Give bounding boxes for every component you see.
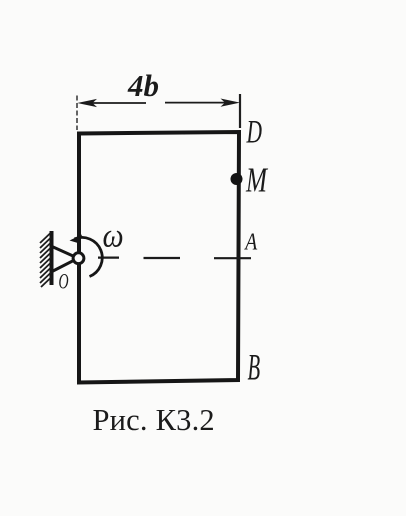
svg-text:O: O [59,269,69,294]
plate outline [79,132,239,383]
svg-text:ω: ω [103,216,124,254]
dimension line 4b [90,102,228,104]
wall hatching [40,233,51,287]
svg-text:A: A [243,227,257,255]
svg-text:M: M [245,161,268,200]
omega arrowhead [70,235,83,244]
dimension arrowhead right [221,99,241,107]
svg-text:B: B [248,347,261,388]
svg-text:D: D [246,114,262,151]
svg-text:Рис. К3.2: Рис. К3.2 [93,403,215,437]
dashed center line OA [98,257,251,260]
label omega [103,216,124,254]
point M dot [231,173,243,185]
caption Рис. К3.2 [93,403,215,437]
label O [59,269,69,294]
extension line left [76,96,78,131]
label B [248,347,261,388]
label A [243,227,257,255]
support wall [50,231,54,285]
label 4b [127,68,159,103]
dimension arrowhead left [77,99,97,107]
extension line right [239,94,241,128]
label D [246,114,262,151]
label M [245,161,268,200]
svg-text:4b: 4b [127,68,159,103]
omega arrow arc [75,237,103,276]
pin O [73,253,84,264]
support triangle [52,247,78,272]
